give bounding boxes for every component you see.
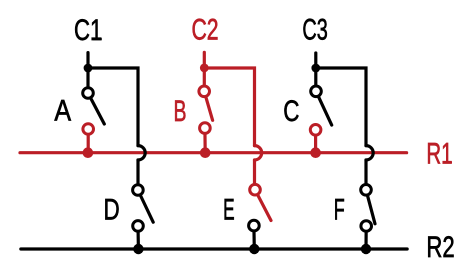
svg-text:B: B <box>174 95 187 128</box>
svg-text:A: A <box>54 94 71 127</box>
svg-text:C3: C3 <box>302 13 327 46</box>
svg-text:E: E <box>223 194 235 227</box>
svg-text:C1: C1 <box>74 14 102 47</box>
svg-text:R2: R2 <box>426 231 454 264</box>
svg-text:F: F <box>334 193 345 226</box>
svg-text:C2: C2 <box>192 13 219 46</box>
svg-text:R1: R1 <box>426 138 452 171</box>
svg-text:C: C <box>283 95 299 128</box>
svg-text:D: D <box>104 194 120 227</box>
